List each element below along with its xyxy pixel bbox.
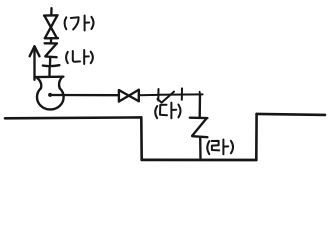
label (나) <box>66 50 93 64</box>
stub between (가) and (나) <box>50 38 52 43</box>
gate valve horizontal bowtie <box>119 90 139 102</box>
valve (라) Z symbol <box>190 118 208 138</box>
top stub above valve (가) <box>50 8 53 15</box>
ground line right <box>257 114 325 115</box>
stub (라) to pit floor <box>199 137 202 159</box>
discharge pipe pump to valve <box>52 94 119 97</box>
pump funnel <box>35 77 63 89</box>
pit floor <box>142 159 257 162</box>
stub (나) to flange <box>49 57 52 64</box>
drop pipe down from corner <box>199 94 202 117</box>
label (라) <box>207 140 233 155</box>
label (다) <box>155 103 180 119</box>
valve (나) Z symbol <box>45 43 57 57</box>
pipe valve to check <box>139 94 159 96</box>
check valve (다) ticks and flap <box>157 88 182 102</box>
suction arrow (up) <box>30 46 40 80</box>
pump circle open-top <box>37 88 64 109</box>
corner overshoot tick <box>199 92 201 95</box>
pit wall left <box>140 117 143 159</box>
pit wall right <box>255 114 258 160</box>
flange bar on suction pipe <box>43 64 60 67</box>
valve (가) vertical bowtie <box>44 15 58 38</box>
stub flange to pump <box>48 67 50 76</box>
ground line left <box>5 116 141 120</box>
label (가) <box>65 16 94 31</box>
pipe check to corner <box>159 93 203 95</box>
pump center dot <box>48 93 52 97</box>
